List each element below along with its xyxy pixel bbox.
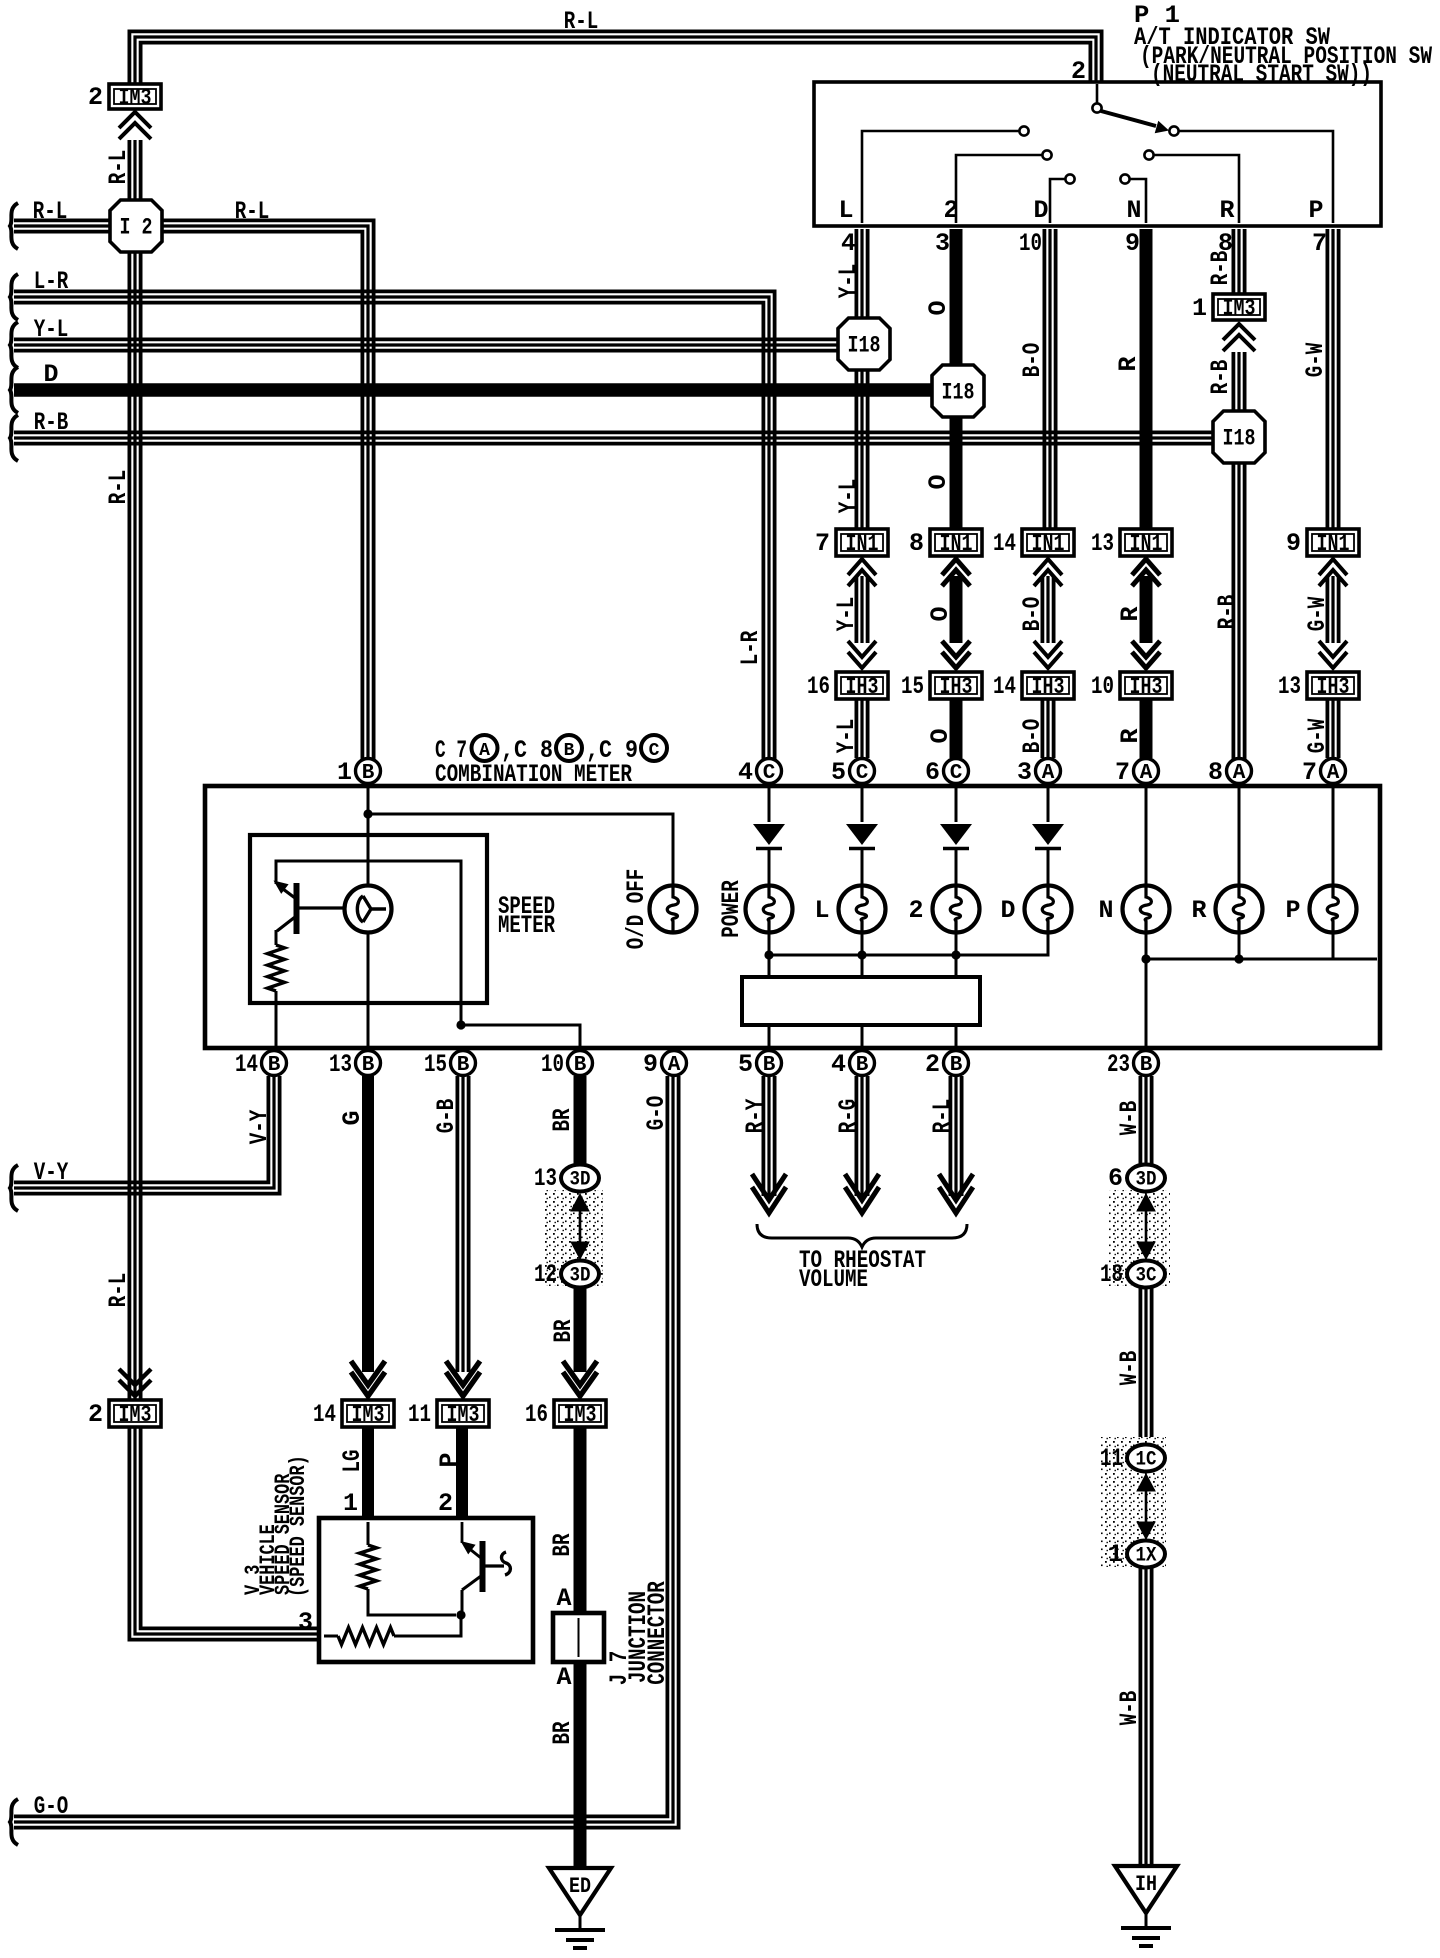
wire R-B between arrow and I18 (1232, 352, 1236, 413)
svg-text:2: 2 (908, 896, 923, 925)
svg-text:L: L (814, 896, 829, 925)
speed meter box (250, 835, 487, 1003)
connector 9 IN1 (1307, 529, 1359, 556)
diode POWER (753, 824, 785, 845)
pin 6(C) meter top (944, 759, 969, 784)
svg-text:5: 5 (831, 758, 846, 787)
svg-text:IM3: IM3 (119, 1402, 152, 1428)
svg-text:16: 16 (807, 672, 830, 701)
wire W-B bottom (1139, 1568, 1143, 1866)
svg-text:13: 13 (1091, 529, 1114, 558)
stipple region W-B upper (1108, 1190, 1170, 1286)
arrows between 1C 1X (1137, 1474, 1155, 1491)
svg-text:G: G (338, 1110, 367, 1125)
connector 11 1C oval (1127, 1445, 1165, 1472)
connector 13 3D oval (561, 1165, 599, 1192)
sensor internal resistor R1 (367, 1522, 370, 1545)
node sensor junction (456, 1610, 465, 1619)
wire Y-L horizontal (14, 349, 840, 353)
arrow into 1 IM3 (1223, 324, 1255, 340)
svg-text:R-L: R-L (564, 7, 599, 36)
svg-text:B-O: B-O (1018, 719, 1047, 754)
wire R-L vertical left column (129, 251, 321, 1640)
arrows between 3D connectors (571, 1194, 589, 1211)
arrow R-Y (752, 1187, 786, 1213)
svg-text:IM3: IM3 (119, 85, 152, 111)
arrow below 9 IN1 (1319, 559, 1347, 575)
svg-text:6: 6 (925, 758, 940, 787)
pin 10(B) meter bottom (568, 1051, 593, 1076)
speedometer internal top wire (276, 861, 461, 1025)
svg-text:I18: I18 (848, 333, 881, 359)
wire G-W column pin7 (1326, 229, 1330, 529)
svg-text:I 2: I 2 (120, 215, 153, 241)
svg-text:R-L: R-L (104, 470, 133, 505)
wire lamp column 2 (955, 784, 958, 822)
O/D OFF bulb (650, 886, 697, 933)
connector 8 IN1 (930, 529, 982, 556)
svg-text:C: C (856, 762, 869, 785)
svg-text:4: 4 (841, 229, 856, 258)
pin 15(B) meter bottom (451, 1051, 476, 1076)
connector 10 IH3 (1120, 672, 1172, 699)
arrow R-L (939, 1187, 973, 1213)
pin 14(B) meter bottom (262, 1051, 287, 1076)
svg-text:IN1: IN1 (940, 531, 973, 557)
svg-text:Y-L: Y-L (832, 597, 861, 632)
connector 7 IN1 (836, 529, 888, 556)
svg-text:7: 7 (1302, 758, 1317, 787)
connector 12 3D oval (561, 1261, 599, 1288)
stipple region 3D (543, 1190, 603, 1286)
svg-text:2: 2 (925, 1050, 940, 1079)
svg-text:C: C (950, 762, 963, 785)
connector 13 IH3 (1307, 672, 1359, 699)
node junction at pin1 branch (363, 809, 372, 818)
wire R-B column pin8 (1232, 229, 1236, 294)
svg-text:16: 16 (525, 1400, 548, 1429)
svg-text:(NEUTRAL START SW)): (NEUTRAL START SW)) (1151, 60, 1372, 89)
bulb P (1310, 886, 1357, 933)
switch contact N row3 (1120, 174, 1129, 183)
svg-text:15: 15 (901, 672, 924, 701)
svg-text:G-W: G-W (1301, 343, 1330, 378)
node dots on left bus (764, 950, 773, 959)
svg-text:V-Y: V-Y (245, 1110, 274, 1145)
svg-text:LG: LG (338, 1450, 367, 1473)
svg-text:N: N (1126, 196, 1141, 225)
svg-text:11: 11 (408, 1400, 431, 1429)
pin 5(C) meter top (850, 759, 875, 784)
svg-text:3: 3 (1017, 758, 1032, 787)
switch contact R row2 (1144, 150, 1153, 159)
connector 16 IM3 (554, 1400, 606, 1427)
svg-text:D: D (1033, 196, 1048, 225)
svg-text:R: R (1116, 606, 1145, 621)
arrow R-G (845, 1187, 879, 1213)
svg-text:L-R: L-R (34, 267, 69, 296)
arrow above 15 IH3 (942, 652, 970, 668)
svg-text:4: 4 (738, 758, 753, 787)
svg-text:2: 2 (88, 1400, 103, 1429)
connector 1 1X oval (1127, 1541, 1165, 1568)
wire L-R horizontal (14, 303, 763, 764)
wire branch to O/D OFF (368, 814, 673, 886)
svg-text:13: 13 (534, 1164, 557, 1193)
svg-text:R-L: R-L (104, 1273, 133, 1308)
arrow below 14 IN1 (1034, 559, 1062, 575)
resistor in speed meter (268, 945, 285, 991)
bulb L (839, 886, 886, 933)
switch lever (1101, 111, 1156, 126)
svg-text:B: B (362, 1054, 375, 1077)
svg-text:R-B: R-B (1206, 360, 1235, 395)
wire B-O between IN1 and IH3 (1041, 576, 1045, 643)
svg-text:A: A (1140, 762, 1153, 785)
wire O below IH3 (950, 699, 963, 758)
wire lamp column D (1047, 784, 1050, 822)
svg-text:G-W: G-W (1303, 597, 1332, 632)
svg-text:6: 6 (1108, 1164, 1123, 1193)
svg-text:B: B (950, 1054, 963, 1077)
svg-text:1C: 1C (1136, 1449, 1157, 1472)
wire R-B below I18 to pin 8A (1232, 462, 1236, 764)
svg-text:C: C (763, 762, 776, 785)
svg-text:IM3: IM3 (352, 1402, 385, 1428)
svg-text:IH3: IH3 (846, 674, 879, 700)
junction I18 on O wire (932, 365, 984, 417)
connector 11 IM3 (437, 1400, 489, 1427)
svg-text:2: 2 (88, 83, 103, 112)
arrow below 7 IN1 (848, 559, 876, 575)
transistor Q1 in speed meter (274, 881, 289, 894)
bulb POWER (746, 886, 793, 933)
svg-text:O/D OFF: O/D OFF (622, 869, 651, 950)
svg-text:BR: BR (548, 1534, 577, 1557)
right lamp bus (1332, 932, 1335, 959)
brace R-B (10, 415, 18, 461)
wire dot branch to pin 10B (456, 1020, 465, 1029)
svg-text:(SPEED SENSOR): (SPEED SENSOR) (286, 1455, 311, 1597)
svg-text:G-B: G-B (432, 1099, 461, 1134)
wire W-B from pin 23B (1139, 1076, 1143, 1165)
junction I 2 octagon (110, 200, 162, 252)
svg-text:CONNECTOR: CONNECTOR (643, 1581, 672, 1685)
svg-text:A: A (1233, 762, 1246, 785)
svg-text:P: P (435, 1452, 464, 1467)
svg-text:3: 3 (298, 1608, 313, 1637)
svg-text:23: 23 (1107, 1050, 1130, 1079)
pin 13(B) meter bottom (356, 1051, 381, 1076)
pin 5(B) meter bottom (757, 1051, 782, 1076)
svg-text:W-B: W-B (1115, 1691, 1144, 1726)
wire G thick from pin 13B (362, 1076, 374, 1372)
svg-text:IH3: IH3 (1130, 674, 1163, 700)
wires rheostat block to pins (768, 1025, 771, 1050)
connector 6 3D oval (1127, 1165, 1165, 1192)
svg-text:A: A (556, 1663, 571, 1692)
svg-text:R-B: R-B (1213, 595, 1242, 630)
svg-text:7: 7 (1312, 229, 1327, 258)
brace R-L left edge (10, 203, 18, 249)
connector 18 3C oval (1127, 1261, 1165, 1288)
sensor transistor (461, 1522, 464, 1543)
wire BR to ED ground (574, 1662, 587, 1868)
svg-text:R-L: R-L (104, 150, 133, 185)
wire G-B from pin 15B (455, 1076, 459, 1372)
connector 2 IM3 top-left (109, 84, 161, 109)
svg-text:1: 1 (1192, 294, 1207, 323)
connector 16 IH3 (836, 672, 888, 699)
wire V-Y horizontal to pin 14 (14, 1076, 280, 1194)
wire R-L right of I2 (162, 232, 362, 764)
arrow above 14 IH3 (1034, 652, 1062, 668)
svg-text:8: 8 (1208, 758, 1223, 787)
diode D (1032, 824, 1064, 845)
svg-text:R: R (1114, 356, 1143, 371)
svg-text:B: B (268, 1054, 281, 1077)
wire R-L from I2 to left edge (14, 230, 110, 234)
switch contact 2 row2 (1042, 150, 1051, 159)
svg-text:G-O: G-O (642, 1096, 671, 1131)
svg-text:14: 14 (235, 1050, 258, 1079)
svg-text:15: 15 (424, 1050, 447, 1079)
svg-text:5: 5 (738, 1050, 753, 1079)
arrows between 3D 3C (1137, 1194, 1155, 1211)
wire R-L top horizontal (141, 43, 1091, 84)
svg-text:B: B (1140, 1054, 1153, 1077)
pin 3(A) meter top (1036, 759, 1061, 784)
svg-text:C: C (649, 741, 660, 761)
wire R column pin9 thick (1140, 229, 1153, 529)
switch contact P row1 (1169, 126, 1178, 135)
brace L-R (10, 274, 18, 320)
wire R-Y from meter (762, 1076, 766, 1196)
svg-text:14: 14 (993, 672, 1016, 701)
pin 2(B) meter bottom (944, 1051, 969, 1076)
svg-text:R: R (1116, 728, 1145, 743)
svg-text:13: 13 (329, 1050, 352, 1079)
svg-text:A: A (668, 1054, 681, 1077)
arrow into 11 IM3 (446, 1372, 480, 1396)
pin 23(B) meter bottom (1134, 1051, 1159, 1076)
svg-text:G-W: G-W (1303, 719, 1332, 754)
wire lamp column L (861, 784, 864, 822)
svg-text:B-O: B-O (1018, 597, 1047, 632)
svg-text:IM3: IM3 (564, 1402, 597, 1428)
svg-text:IH: IH (1135, 1872, 1157, 1897)
svg-text:9: 9 (643, 1050, 658, 1079)
wire meter circle to pin 13B (367, 932, 370, 1050)
svg-text:ED: ED (569, 1874, 591, 1899)
wire W-B mid (1139, 1288, 1143, 1444)
left lamp bus (769, 932, 1048, 955)
wire B-O below IH3 (1041, 699, 1045, 758)
connector 14 IH3 (1022, 672, 1074, 699)
svg-text:B: B (763, 1054, 776, 1077)
svg-text:13: 13 (1278, 672, 1301, 701)
connector 14 IM3 (342, 1400, 394, 1427)
svg-text:R-L: R-L (33, 197, 68, 226)
switch contact D row3 (1065, 174, 1074, 183)
svg-text:1: 1 (1108, 1540, 1123, 1569)
svg-text:7: 7 (1115, 758, 1130, 787)
wire R-L vertical to I2 (127, 140, 131, 201)
wire G-O horizontal (14, 1076, 679, 1828)
svg-text:IH3: IH3 (1317, 674, 1350, 700)
wire LG thick to sensor pin1 (362, 1427, 374, 1518)
svg-text:Y-L: Y-L (34, 315, 69, 344)
diode 2 (940, 824, 972, 845)
svg-text:3: 3 (935, 229, 950, 258)
svg-text:POWER: POWER (717, 880, 746, 938)
wire G-W below IH3 (1326, 699, 1330, 758)
pin 7(A) meter top (1321, 759, 1346, 784)
wire R between IN1 and IH3 (1140, 576, 1153, 643)
vehicle speed sensor box V3 (319, 1518, 533, 1662)
wire R-G from meter (855, 1076, 859, 1196)
pin 8(A) meter top (1227, 759, 1252, 784)
svg-text:O: O (926, 728, 955, 743)
node dots on right bus (1141, 954, 1150, 963)
svg-text:9: 9 (1125, 229, 1140, 258)
connector 13 IN1 (1120, 529, 1172, 556)
svg-text:W-B: W-B (1115, 1351, 1144, 1386)
speedometer meter circle (345, 886, 392, 933)
svg-text:10: 10 (541, 1050, 564, 1079)
svg-text:2: 2 (943, 196, 958, 225)
svg-text:IN1: IN1 (846, 531, 879, 557)
arrow above 13 IH3 (1319, 652, 1347, 668)
arrow into 14 IM3 (351, 1372, 385, 1396)
svg-text:10: 10 (1091, 672, 1114, 701)
svg-text:B: B (564, 741, 575, 761)
svg-text:W-B: W-B (1115, 1101, 1144, 1136)
wire Y-L column pin4 (855, 229, 859, 321)
svg-text:12: 12 (534, 1260, 557, 1289)
svg-text:11: 11 (1100, 1444, 1123, 1473)
wire BR to J7 (574, 1427, 587, 1613)
brace TO RHEOSTAT (757, 1224, 967, 1247)
bulb N (1123, 886, 1170, 933)
svg-text:3D: 3D (1136, 1169, 1157, 1192)
svg-text:R-B: R-B (34, 408, 69, 437)
svg-text:R: R (1191, 896, 1206, 925)
svg-text:R-Y: R-Y (741, 1099, 770, 1134)
svg-text:BR: BR (548, 1722, 577, 1745)
stipple region W-B lower (1100, 1437, 1166, 1567)
svg-text:A: A (1042, 762, 1055, 785)
wire R-L from meter (949, 1076, 953, 1196)
svg-text:1: 1 (337, 758, 352, 787)
svg-text:B: B (856, 1054, 869, 1077)
rheostat block box (742, 977, 980, 1025)
brace Y-L (10, 322, 18, 368)
wire Y-L below I18 (855, 368, 859, 529)
svg-text:BR: BR (549, 1320, 578, 1343)
svg-text:2: 2 (438, 1489, 453, 1518)
svg-text:R-L: R-L (235, 197, 270, 226)
arrow above 16 IH3 (848, 652, 876, 668)
brace G-O (10, 1799, 18, 1845)
svg-text:O: O (924, 300, 953, 315)
arrow below 13 IN1 (1132, 559, 1160, 575)
arrow into IM3 top-left (119, 112, 151, 128)
svg-text:I18: I18 (1223, 426, 1256, 452)
junction I18 on Y-L wire (838, 318, 890, 370)
svg-text:D: D (1000, 896, 1015, 925)
sensor internal resistor R2 (338, 1628, 394, 1645)
wire Y-L below IH3 (855, 699, 859, 758)
svg-text:Y-L: Y-L (832, 719, 861, 754)
svg-text:IH3: IH3 (1032, 674, 1065, 700)
svg-text:9: 9 (1286, 529, 1301, 558)
pin 7(A) meter top (1134, 759, 1159, 784)
wire G-W between IN1 and IH3 (1326, 576, 1330, 643)
ground ED (549, 1868, 611, 1915)
svg-text:METER: METER (498, 911, 555, 940)
pin 4(C) meter top (757, 759, 782, 784)
wire P thick to sensor pin2 (456, 1427, 468, 1518)
connector 15 IH3 (930, 672, 982, 699)
svg-text:B: B (574, 1054, 587, 1077)
svg-text:L-R: L-R (736, 631, 765, 666)
svg-text:O: O (926, 606, 955, 621)
wire pin1B internal (367, 784, 370, 885)
svg-text:1X: 1X (1136, 1545, 1157, 1568)
svg-text:14: 14 (993, 529, 1016, 558)
svg-text:14: 14 (313, 1400, 336, 1429)
svg-text:3C: 3C (1136, 1265, 1157, 1288)
svg-text:3D: 3D (570, 1169, 591, 1192)
svg-text:B-O: B-O (1018, 343, 1047, 378)
wire BR mid (574, 1288, 587, 1372)
svg-text:IN1: IN1 (1032, 531, 1065, 557)
pin 4(B) meter bottom (850, 1051, 875, 1076)
svg-text:BR: BR (548, 1109, 577, 1132)
wire lamp column P (1332, 784, 1335, 886)
svg-text:O: O (924, 474, 953, 489)
svg-text:18: 18 (1100, 1260, 1123, 1289)
wire Y-L between IN1 and IH3 (855, 576, 859, 643)
arrow into 16 IM3 (563, 1372, 597, 1396)
svg-text:2: 2 (1071, 57, 1086, 86)
A/T indicator switch box P1 (814, 82, 1381, 226)
wire R below IH3 (1140, 699, 1153, 758)
svg-text:3D: 3D (570, 1265, 591, 1288)
svg-text:IM3: IM3 (447, 1402, 480, 1428)
arrow above 10 IH3 (1132, 652, 1160, 668)
svg-text:IN1: IN1 (1130, 531, 1163, 557)
svg-text:IH3: IH3 (940, 674, 973, 700)
svg-text:A: A (479, 741, 490, 761)
wire lamp column POWER (768, 784, 771, 822)
svg-text:R-G: R-G (834, 1099, 863, 1134)
junction connector J7 (553, 1613, 604, 1662)
bulb 2 (933, 886, 980, 933)
arrow below 8 IN1 (942, 559, 970, 575)
svg-text:1: 1 (343, 1489, 358, 1518)
connector 2 IM3 bottom-left (119, 1380, 151, 1396)
brace D (10, 367, 18, 413)
svg-text:N: N (1098, 896, 1113, 925)
junction I18 on R-B wire (1213, 411, 1265, 463)
wire lamp column R (1238, 784, 1241, 886)
diode L (846, 824, 878, 845)
svg-text:G-O: G-O (34, 1792, 69, 1821)
svg-text:B: B (362, 762, 375, 785)
svg-text:Y-L: Y-L (834, 479, 863, 514)
